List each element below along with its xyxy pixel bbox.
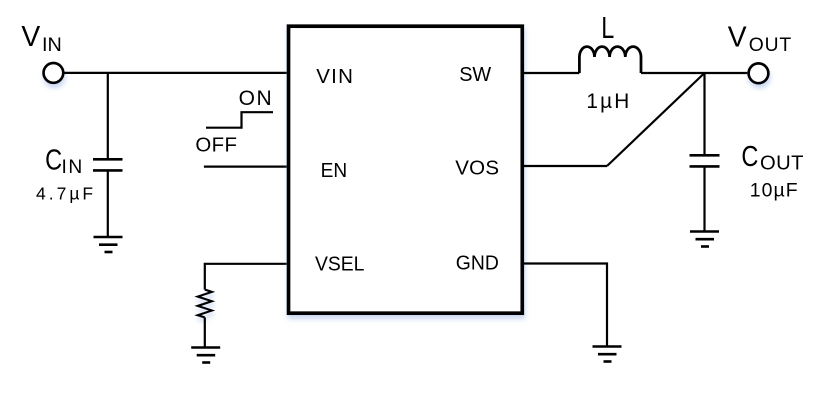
svg-text:1µH: 1µH (586, 90, 631, 113)
wire resistor to ground (204, 317, 206, 347)
ground CIN (94, 237, 123, 252)
svg-text:VOS: VOS (455, 157, 499, 180)
wire GND pin (522, 264, 607, 347)
wire VIN input (64, 72, 289, 74)
svg-text:ON: ON (239, 87, 274, 110)
wire CIN to ground (107, 170, 109, 237)
svg-text:VSEL: VSEL (315, 252, 365, 275)
wire VSEL (205, 264, 288, 290)
wire VOS diagonal (607, 73, 705, 166)
svg-text:V: V (728, 20, 747, 52)
terminal VOUT circle (749, 63, 769, 83)
svg-text:OUT: OUT (760, 152, 804, 174)
svg-text:L: L (601, 10, 614, 45)
svg-text:IN: IN (62, 157, 84, 178)
svg-text:C: C (741, 140, 758, 172)
wire VOS (522, 165, 607, 167)
inductor L (579, 47, 641, 73)
wire EN (204, 166, 288, 168)
wire L to VOUT (641, 72, 749, 74)
wire COUT to ground (703, 166, 705, 231)
ON/OFF step waveform (206, 112, 273, 128)
svg-text:GND: GND (456, 251, 499, 274)
ground resistor (191, 348, 220, 363)
wire COUT branch (703, 73, 705, 155)
svg-text:OUT: OUT (749, 35, 792, 56)
svg-text:EN: EN (321, 159, 348, 182)
wire CIN branch (107, 73, 109, 159)
svg-text:V: V (21, 20, 40, 52)
ground GND pin (593, 347, 622, 362)
capacitor C_IN (93, 159, 123, 170)
IC U1 body (289, 26, 523, 313)
svg-text:4.7µF: 4.7µF (36, 183, 96, 203)
capacitor C_OUT (690, 155, 720, 166)
ground COUT (690, 232, 719, 247)
svg-text:10µF: 10µF (750, 179, 799, 201)
svg-text:C: C (45, 144, 62, 176)
svg-text:IN: IN (42, 34, 62, 56)
svg-text:VIN: VIN (316, 65, 354, 88)
svg-text:OFF: OFF (195, 135, 237, 157)
svg-text:SW: SW (459, 63, 492, 86)
terminal VIN circle (44, 63, 64, 83)
resistor R1 (198, 290, 212, 318)
wire SW (522, 72, 579, 74)
